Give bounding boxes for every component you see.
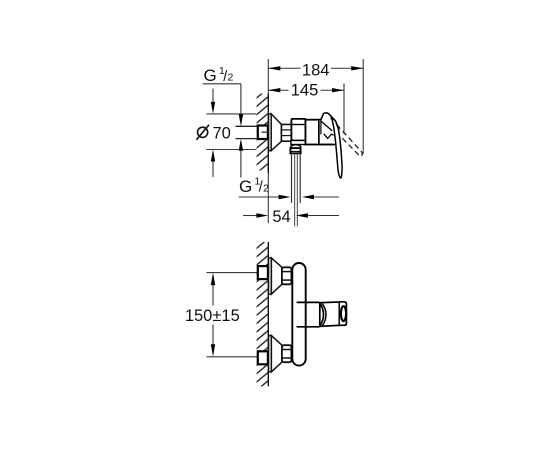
wall (bottom view) hatched band [257, 242, 269, 386]
outlet flange below body A [291, 141, 306, 145]
lower escutcheon plate [269, 336, 272, 372]
label Ø 70 [198, 127, 208, 137]
body A inner line [291, 124, 305, 126]
upper escutcheon plate [269, 258, 272, 294]
wall face line [267, 94, 269, 174]
svg-text:70: 70 [213, 124, 231, 142]
leader G1/2 bottom [239, 196, 280, 198]
escutcheon (top view): base plate + cone [269, 114, 272, 151]
hose union nut [290, 148, 300, 153]
cartridge dome (top view) [319, 113, 339, 145]
handle grip outline [320, 302, 347, 327]
lower union threads [282, 345, 292, 362]
extension line wall face (184/145/54 dims) [267, 59, 269, 94]
wall face [267, 242, 269, 386]
leader G1/2 top [203, 83, 241, 85]
svg-text:2: 2 [228, 72, 234, 84]
valve body section A (top view) [291, 119, 305, 141]
dimension Ø70 vertical line + arrows [212, 89, 214, 103]
svg-text:184: 184 [302, 61, 330, 79]
dimension 54 [243, 215, 258, 217]
supply pipe (top view) [236, 125, 258, 127]
dome inner vertical [320, 120, 322, 135]
dome inner diagonal [321, 121, 332, 131]
hose pipe outer lines [291, 153, 293, 203]
lever handle raised position (dashed) [331, 118, 363, 157]
svg-text:54: 54 [272, 208, 290, 226]
dimension Ø70 extension lines [206, 113, 256, 115]
outlet dome arc below flange [291, 145, 301, 148]
extension line 150 top [207, 272, 258, 274]
wall (top view) hatched band [257, 94, 269, 171]
valve body section B (top view) [306, 120, 319, 145]
svg-text:G: G [239, 177, 252, 196]
handle neck lines [297, 301, 320, 303]
svg-text:150±15: 150±15 [185, 307, 240, 325]
hose pipe inner lines [294, 153, 296, 226]
grip crescent arcs [320, 303, 324, 326]
lower supply square [258, 351, 268, 364]
dome V notch [324, 134, 334, 139]
upper escutcheon cone [271, 258, 282, 294]
extension line 145 right [343, 84, 345, 135]
upper union threads [282, 267, 292, 284]
svg-text:145: 145 [291, 81, 319, 99]
supply elbow square (top view) [258, 126, 268, 140]
dome bottom edge [319, 144, 334, 146]
svg-text:2: 2 [263, 183, 269, 195]
svg-text:G: G [204, 66, 217, 85]
upper supply square [258, 266, 268, 279]
grip end cap divider [338, 302, 340, 325]
dimension 184 [268, 67, 363, 69]
lever handle solid (top view) [332, 117, 342, 178]
dimension 150±15 [212, 285, 214, 306]
hex nut (top view) [281, 124, 291, 141]
mixer body capsule (bottom view) [292, 263, 305, 366]
extension line 184 right [362, 59, 364, 154]
dimension 145 [268, 89, 344, 91]
extension line 150 bottom [207, 356, 258, 358]
lower escutcheon cone [271, 336, 282, 372]
grip end ellipse [341, 306, 346, 321]
